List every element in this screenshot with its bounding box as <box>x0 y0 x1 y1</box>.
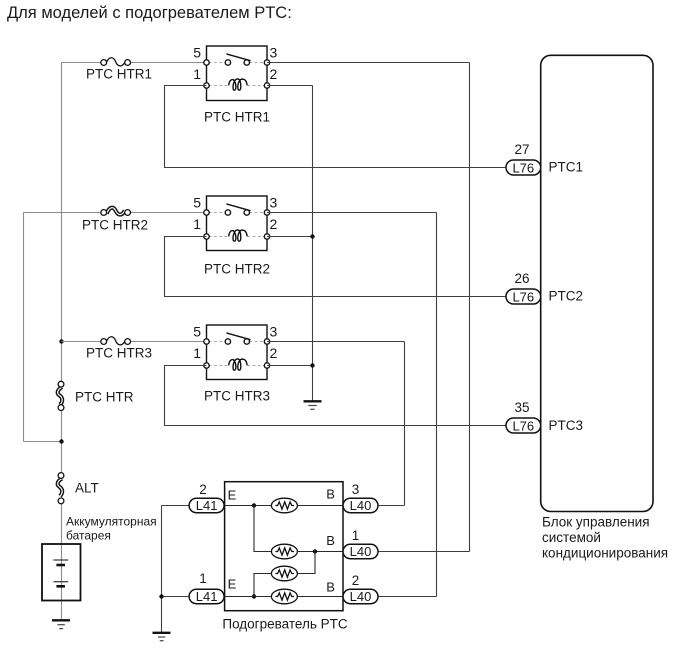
connector L76 pin 27 <box>506 160 541 175</box>
connector L40 pin3 <box>343 498 378 513</box>
svg-text:3: 3 <box>352 482 360 497</box>
svg-text:3: 3 <box>270 45 278 61</box>
svg-text:2: 2 <box>199 482 207 497</box>
wire: relay1 pin1 coil loop to L76-27 <box>165 86 507 168</box>
relay U3 pin 3 <box>264 339 269 344</box>
wire: relay2 supply row fuse to pin5 <box>130 212 207 214</box>
relay U3 coil <box>229 359 248 370</box>
svg-text:3: 3 <box>270 195 278 211</box>
svg-text:5: 5 <box>193 195 201 211</box>
relay U3 switch contacts <box>225 339 230 344</box>
relay U3 internal dashes switch row <box>209 341 225 343</box>
relay U1 internal dashes switch row <box>209 62 225 64</box>
svg-text:2: 2 <box>270 66 278 82</box>
wire: relay2 pin2 to ground bus <box>267 236 313 238</box>
node: junction dot (254,505.5) <box>252 503 256 507</box>
relay U1 pin 3 <box>264 60 269 65</box>
wire: L41-2 to ground vertical <box>162 505 190 507</box>
relay U3 internal dashes coil row <box>209 365 228 367</box>
wire: left branch vertical x=23 (to relay2 supply) <box>23 213 25 442</box>
wire: into L40 pin1 <box>378 551 470 553</box>
heater box Подогреватель PTC <box>225 482 343 611</box>
svg-text:1: 1 <box>193 216 201 232</box>
svg-text:E: E <box>228 488 237 503</box>
relay U2 pin 1 <box>204 234 209 239</box>
node: junction dot at (61,441) <box>59 439 63 443</box>
connector L41 pin1 <box>189 589 224 604</box>
wire: coil ground bus vertical x=312 <box>312 86 314 401</box>
svg-text:L40: L40 <box>350 498 372 513</box>
wire: relay3 supply row fuse to pin5 <box>130 341 207 343</box>
wire: heater E ground vertical x=161.5 <box>161 506 163 633</box>
relay U3 pin 2 <box>264 363 269 368</box>
relay U1 switch contacts <box>225 60 230 65</box>
svg-text:1: 1 <box>193 66 201 82</box>
wire: relay3 pin1 coil loop to L76-35 <box>165 366 507 426</box>
relay U2 pin 5 <box>204 210 209 215</box>
relay U1 pin 1 <box>204 83 209 88</box>
svg-text:L40: L40 <box>350 544 372 559</box>
wire: element 2 right to L40-1 <box>298 551 344 553</box>
wire: into L40 pin2 <box>378 596 437 598</box>
relay U2 internal dashes switch row <box>209 212 225 214</box>
svg-text:Блок управления: Блок управления <box>542 515 650 530</box>
wire: element 3 left down to bottom row <box>254 574 272 597</box>
svg-text:L41: L41 <box>196 498 218 513</box>
heater element R1 (top) <box>271 498 297 513</box>
wire: heater internal bottom row left <box>225 596 272 598</box>
svg-text:5: 5 <box>193 45 201 61</box>
node: junction dot (161.5,596.5) <box>159 594 163 598</box>
svg-text:L40: L40 <box>350 589 372 604</box>
svg-text:PTC3: PTC3 <box>549 418 584 433</box>
wire: x=23 to x=61 jumper at y=441 <box>24 441 62 443</box>
wire: relay2 pin1 coil loop to L76-26 <box>165 237 506 297</box>
fusible link PTC HTR2 <box>101 208 131 216</box>
connector L76 pin 26 <box>506 289 541 304</box>
relay U3 switch blade <box>226 333 250 340</box>
svg-text:Подогреватель PTC: Подогреватель PTC <box>222 616 347 631</box>
svg-text:PTC HTR2: PTC HTR2 <box>82 218 148 233</box>
wire: relay1 supply row y=62 fuse to pin5 <box>130 62 207 64</box>
relay U3 pin 1 <box>204 363 209 368</box>
wire: into L40 pin3 <box>378 505 405 507</box>
svg-text:PTC HTR3: PTC HTR3 <box>86 346 152 361</box>
heater element R2 <box>271 544 297 559</box>
svg-text:2: 2 <box>270 345 278 361</box>
svg-text:PTC1: PTC1 <box>549 160 584 175</box>
wire: relay3 pin2 to ground bus <box>267 365 313 367</box>
heater element R3 <box>271 566 297 581</box>
relay U1 coil <box>229 79 248 90</box>
node: junction dot at (61,341) relay3 supply tap <box>59 339 63 343</box>
fuse PTC HTR1 <box>101 58 131 66</box>
svg-text:PTC HTR1: PTC HTR1 <box>204 110 270 125</box>
svg-text:PTC HTR: PTC HTR <box>75 390 134 405</box>
svg-text:1: 1 <box>199 571 207 586</box>
relay U2 internal dashes coil row <box>209 236 228 238</box>
wire: battery supply vertical x=61 (top run to PTC HTR fuse) <box>61 63 63 382</box>
svg-text:L76: L76 <box>512 160 534 175</box>
wire: vertical x=436 down to L40-2 row <box>436 213 438 597</box>
relay U1 PTC HTR1 box <box>207 46 268 101</box>
relay U2 pin 2 <box>264 234 269 239</box>
svg-text:3: 3 <box>270 324 278 340</box>
fusible link ALT (vertical) <box>58 473 64 504</box>
wire: relay3 supply row y=341 left of fuse <box>62 341 102 343</box>
wire: heater internal bottom row right <box>298 596 344 598</box>
svg-text:Аккумуляторная: Аккумуляторная <box>66 515 157 529</box>
connector L40 pin1 <box>343 544 378 559</box>
svg-text:5: 5 <box>193 324 201 340</box>
wire: relay1 supply row y=62 left of fuse <box>62 62 102 64</box>
node: junction dot (254,596.5) <box>252 594 256 598</box>
relay U2 switch blade <box>226 204 250 211</box>
wire: relay1 pin3 to vertical x=470 <box>267 62 470 64</box>
wire: relay2 supply row y=212 left of fuse <box>24 212 102 214</box>
relay U2 switch contacts <box>225 210 230 215</box>
svg-text:1: 1 <box>193 345 201 361</box>
connector L76 pin 35 <box>506 418 541 433</box>
fusible link PTC HTR (vertical) <box>58 381 64 410</box>
relay U1 internal dashes coil row <box>209 85 228 87</box>
svg-text:B: B <box>326 580 335 595</box>
ground: heater E terminals <box>153 633 171 641</box>
wire: battery supply vertical x=61 (ALT fuse to battery) <box>61 504 63 620</box>
wire: vertical x=404 down to L40-3 row <box>404 342 406 506</box>
svg-text:L76: L76 <box>512 418 534 433</box>
svg-text:PTC2: PTC2 <box>549 289 584 304</box>
relay U3 pin 5 <box>204 339 209 344</box>
relay U1 switch blade <box>226 54 250 61</box>
wire: branch from top row down to element 2 <box>254 506 272 552</box>
connector L41 pin2 <box>189 498 224 513</box>
node: junction dot (312,365) <box>310 363 314 367</box>
svg-text:кондиционирования: кондиционирования <box>542 546 668 561</box>
svg-text:ALT: ALT <box>75 481 99 496</box>
heater element R4 (bottom) <box>271 589 297 604</box>
fuse PTC HTR3 <box>101 337 131 345</box>
connector L40 pin2 <box>343 589 378 604</box>
svg-text:27: 27 <box>514 142 529 157</box>
battery BAT box <box>42 544 81 601</box>
svg-text:L76: L76 <box>512 289 534 304</box>
wire: relay2 pin3 to vertical x=436 <box>267 212 437 214</box>
relay U2 PTC HTR2 box <box>207 196 268 251</box>
wire: L41-1 to ground vertical <box>162 596 190 598</box>
svg-text:B: B <box>326 533 335 548</box>
svg-text:26: 26 <box>514 271 529 286</box>
battery cell plates <box>54 560 69 586</box>
relay U2 pin 3 <box>264 210 269 215</box>
wire: relay1 pin2 to ground bus <box>267 85 313 87</box>
svg-text:PTC HTR3: PTC HTR3 <box>204 389 270 404</box>
wire: branch from L40-1 net down to element 3 right <box>298 552 316 574</box>
ground: battery <box>52 620 70 628</box>
relay U1 pin 5 <box>204 60 209 65</box>
wire: vertical x=470 down to L40-1 row <box>469 63 471 552</box>
svg-text:L41: L41 <box>196 589 218 604</box>
A/C control unit box <box>541 55 653 511</box>
svg-text:35: 35 <box>514 400 529 415</box>
ground: relay coil bus <box>304 401 322 409</box>
relay U2 coil <box>229 230 248 241</box>
wire: relay3 pin3 to vertical x=404 <box>267 341 405 343</box>
svg-text:2: 2 <box>352 573 360 588</box>
wire: battery supply vertical x=61 (between fuses) <box>61 411 63 473</box>
node: junction dot (315,551.5) <box>313 549 317 553</box>
svg-text:2: 2 <box>270 216 278 232</box>
relay U1 pin 2 <box>264 83 269 88</box>
relay U3 PTC HTR3 box <box>207 325 268 380</box>
svg-text:1: 1 <box>352 528 360 543</box>
node: junction dot (312,236) <box>310 234 314 238</box>
svg-text:PTC HTR1: PTC HTR1 <box>86 67 152 82</box>
svg-text:Для моделей с подогревателем P: Для моделей с подогревателем PTC: <box>7 4 292 22</box>
svg-text:E: E <box>228 577 237 592</box>
svg-text:PTC HTR2: PTC HTR2 <box>204 262 270 277</box>
svg-text:системой: системой <box>542 530 601 545</box>
wire: heater internal top row left <box>225 505 272 507</box>
wire: heater internal top row right <box>298 505 344 507</box>
svg-text:батарея: батарея <box>66 529 111 543</box>
svg-text:B: B <box>326 487 335 502</box>
